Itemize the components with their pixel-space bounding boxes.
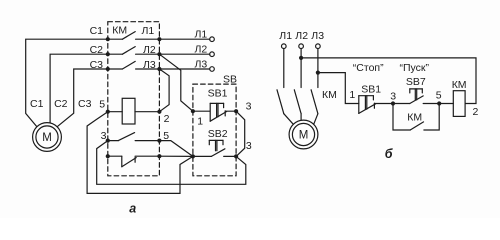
coil terminal dots <box>106 110 162 114</box>
junction dots row 3 <box>106 67 162 71</box>
KM switch pole 1 <box>277 90 293 125</box>
junction dots row 2 <box>106 52 162 56</box>
KM switch pole 2 <box>294 90 301 120</box>
tap dot L3 <box>316 71 320 75</box>
svg-text:Л1: Л1 <box>142 25 155 37</box>
junction dots row 1 <box>106 37 162 41</box>
KM main contact pole 1 <box>108 32 160 40</box>
motor M (diagram a) <box>33 123 62 152</box>
KM aux contact lower (break) <box>108 156 160 167</box>
node 1 dot <box>191 109 195 113</box>
svg-text:КМ: КМ <box>407 111 422 123</box>
svg-text:SB: SB <box>223 74 237 86</box>
wire phase L3 drop <box>317 49 319 88</box>
tap dot L2 <box>299 56 303 60</box>
wire phase L1 drop <box>283 49 285 88</box>
svg-text:Л1: Л1 <box>195 29 208 41</box>
svg-text:С3: С3 <box>78 98 92 110</box>
wire phase C3 to contact <box>57 69 108 127</box>
lower aux dots <box>106 154 162 158</box>
svg-text:КМ: КМ <box>322 89 337 101</box>
contactor KM dashed enclosure <box>108 22 160 176</box>
KM aux latch contact (b) <box>393 104 439 131</box>
SB2 right dot <box>234 154 238 158</box>
svg-text:Л3: Л3 <box>143 59 156 71</box>
svg-text:5: 5 <box>99 99 105 111</box>
wire lower aux right to SB2 left junction <box>159 155 193 157</box>
svg-text:SB2: SB2 <box>208 128 228 140</box>
wire node3 ring (aux left to SB2 right via bottom) <box>97 141 246 185</box>
terminal L3 (b) <box>316 44 321 49</box>
button SB7 start (NO) <box>393 89 439 104</box>
aux contact dots <box>106 139 162 143</box>
svg-text:М: М <box>299 130 309 142</box>
buttons SB dashed enclosure <box>193 84 236 176</box>
wire phase L2 drop <box>300 49 302 88</box>
terminal L3 <box>210 67 215 72</box>
svg-text:С1: С1 <box>90 25 104 37</box>
wire to terminal L1 <box>159 38 209 40</box>
coil KM (diagram a) <box>108 98 160 124</box>
svg-text:Л2: Л2 <box>295 30 308 42</box>
SB1 right dot <box>234 109 238 113</box>
wire aux right to SB2 left junction <box>159 141 193 157</box>
terminal L2 <box>210 52 215 57</box>
button SB2 start (NO) <box>193 140 236 156</box>
wire L2 junction to node 1 <box>159 54 193 111</box>
svg-text:SB1: SB1 <box>208 87 228 99</box>
svg-text:Л2: Л2 <box>195 44 208 56</box>
svg-text:б: б <box>385 147 394 161</box>
button SB1 stop (NC) <box>193 103 236 121</box>
svg-text:“Пуск”: “Пуск” <box>400 62 430 74</box>
svg-text:3: 3 <box>101 130 107 142</box>
wire node5 loop (coil left to SB2 left) <box>87 112 193 194</box>
node 5 dot (b) <box>437 101 441 105</box>
svg-text:2: 2 <box>473 106 479 118</box>
KM main contact pole 2 <box>108 47 160 55</box>
svg-text:С2: С2 <box>90 44 104 56</box>
button SB1 stop (b, NC) <box>359 96 393 114</box>
svg-text:М: М <box>42 132 52 144</box>
terminal L1 (b) <box>282 44 287 49</box>
svg-text:“Стоп”: “Стоп” <box>353 62 384 74</box>
node 3 dot (b) <box>391 101 395 105</box>
svg-text:КМ: КМ <box>452 79 467 91</box>
svg-text:SB1: SB1 <box>361 84 381 96</box>
svg-text:Л3: Л3 <box>311 30 324 42</box>
KM switch pole 3 <box>311 90 318 125</box>
svg-text:КМ: КМ <box>112 25 127 37</box>
svg-text:Л2: Л2 <box>143 44 156 56</box>
wire L3 junction to coil terminal 2 <box>159 69 169 112</box>
svg-text:С1: С1 <box>30 98 44 110</box>
KM aux contact 3-5 (latching) <box>108 133 160 141</box>
wire L3 tap to node 1 <box>318 73 359 104</box>
svg-text:С3: С3 <box>90 59 104 71</box>
svg-text:Л3: Л3 <box>195 58 208 70</box>
wire to terminal L2 <box>159 53 209 55</box>
svg-text:5: 5 <box>436 89 442 101</box>
SB2 left junction dot <box>191 154 195 158</box>
terminal L2 (b) <box>299 44 304 49</box>
svg-text:3: 3 <box>390 91 396 103</box>
svg-text:Л1: Л1 <box>279 30 292 42</box>
svg-text:3: 3 <box>246 140 252 152</box>
motor M (diagram b) <box>289 120 318 149</box>
coil KM (diagram b) <box>439 91 465 117</box>
wire phase C1 to contact <box>26 39 108 126</box>
svg-text:С2: С2 <box>54 98 68 110</box>
svg-text:а: а <box>129 201 136 215</box>
wire to terminal L3 <box>159 68 209 70</box>
terminal L1 <box>210 37 215 42</box>
svg-text:2: 2 <box>164 113 170 125</box>
svg-text:1: 1 <box>197 116 203 128</box>
wire SB1 right to SB2 right (bulge) <box>236 111 245 156</box>
svg-text:SB7: SB7 <box>406 76 426 88</box>
wire phase C2 to contact <box>50 54 108 123</box>
svg-text:1: 1 <box>349 89 355 101</box>
svg-text:3: 3 <box>246 101 252 113</box>
KM main contact pole 3 <box>108 61 160 69</box>
wire L2 tap to coil side <box>301 58 476 104</box>
